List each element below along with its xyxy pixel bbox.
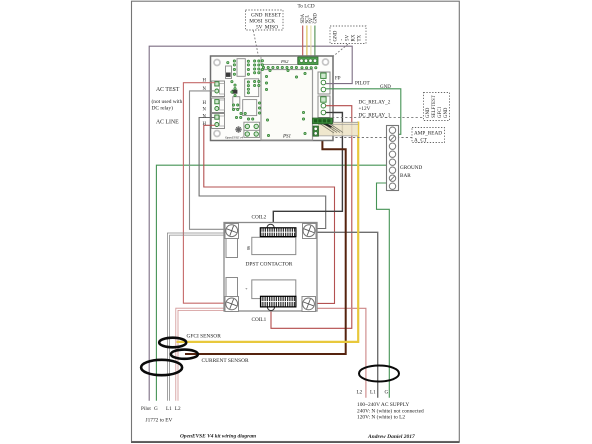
svg-text:To LCD: To LCD [298,4,315,10]
svg-text:+12V: +12V [359,106,371,112]
svg-text:L1: L1 [166,406,172,412]
svg-text:A_CT: A_CT [414,138,428,144]
svg-text:MISO: MISO [265,25,278,31]
wire current sensor maroon [185,137,346,354]
PCB pads scatter [227,60,317,137]
PCB mounting hole bottom-left [214,131,220,137]
contactor screw box BL [225,297,239,312]
dashed link ICSP to PCB [253,31,258,57]
IC tall rect JP2 [237,59,245,77]
GFCI header dashed box [424,93,450,121]
wire LCD SDA red [302,26,304,59]
svg-text:AC TEST: AC TEST [156,87,180,93]
svg-text:J1772 to EV: J1772 to EV [146,418,173,424]
wire L2 to J1772 double pink a [176,308,227,401]
svg-text:FP: FP [335,77,341,82]
svg-text:AMP_READ: AMP_READ [414,131,442,137]
svg-text:SELFTEST: SELFTEST [432,95,437,118]
svg-text:GND: GND [444,107,449,118]
svg-text:5V: 5V [256,25,263,31]
svg-text:RX: RX [352,34,357,41]
contactor screw box TL [225,224,239,239]
coil 1 hatched [261,296,296,307]
svg-text:L2: L2 [175,406,181,412]
page border frame [132,1,460,441]
svg-text:BAR: BAR [400,173,411,179]
svg-text:PS1: PS1 [282,135,291,140]
svg-text:GFCI: GFCI [438,107,443,118]
svg-text:86: 86 [246,246,251,250]
wire ground green J1772 to ground bar [156,165,386,401]
wire supply L1 gray [316,232,378,397]
wire AC LINE N dark gray [199,118,326,229]
page bottom edge thick [131,441,460,443]
gear icon [235,126,241,132]
svg-text:H: H [203,122,207,127]
svg-text:G: G [154,406,158,412]
connector AC TEST block [212,81,225,97]
svg-text:L2: L2 [357,390,363,396]
connector LCD header [298,57,318,65]
ICSP dashed box [246,10,284,31]
svg-text:H: H [203,79,207,84]
serial dashed box [330,26,366,44]
wire L1 to J1772 double gray a [167,233,226,401]
wire stub AC TEST H at pad [210,82,215,84]
wire supply ground green [377,183,390,398]
wire stub DC_RELAY_1 at pin [326,112,334,114]
IC dark chip B [232,90,238,94]
dashed net AMP_READ [331,137,412,139]
wire supply L2 pink [315,308,366,398]
J1772 cable ellipse [141,360,182,375]
wire DC_RELAY_1 black to coil2 [273,113,342,224]
dashed link serial to PCB [334,44,348,56]
coil 2 hatched [260,228,296,237]
wire AC TEST N gray [190,91,227,229]
wire L2 to J1772 double pink b [178,310,227,400]
svg-text:DPST CONTACTOR: DPST CONTACTOR [246,262,293,268]
svg-text:H: H [203,101,207,106]
svg-text:GFCI SENSOR: GFCI SENSOR [187,334,222,340]
svg-text:CURRENT SENSOR: CURRENT SENSOR [202,358,249,364]
svg-text:AC LINE: AC LINE [156,120,179,126]
wire GFCI yellow [177,122,359,342]
jumper block JP1 [244,122,260,137]
AC supply cable ellipse [359,366,399,382]
wire pilot purple loop [149,46,352,401]
svg-text:5V: 5V [346,35,351,42]
svg-text:N: N [203,108,207,113]
contactor left tab upper [226,239,238,258]
PCB mounting hole top-right [323,59,329,65]
IC rect E [243,100,257,116]
contactor K1 body [224,223,317,312]
wire LCD 5V pale [310,26,312,59]
IC rect D [233,97,240,109]
ground bar [387,126,399,191]
terminal block AC [313,118,333,124]
terminal block CT [313,126,319,136]
svg-text:OpenEVSE v4: OpenEVSE v4 [225,136,244,140]
svg-text:COIL1: COIL1 [252,317,267,323]
svg-text:Andrew Daniel 2017: Andrew Daniel 2017 [367,434,415,440]
connector DC relay block [318,96,330,118]
wire LCD GND green [314,26,316,59]
connector unused block [212,98,225,113]
IC dark chip A [226,73,231,77]
IC small rect A [226,66,232,79]
wire AC TEST H red [183,83,228,304]
svg-text:GND: GND [426,107,431,118]
wire GND green PCB to ground bar [326,89,401,135]
PCB mounting hole top-left [214,60,220,66]
svg-text:GROUND: GROUND [400,165,422,171]
current sensor ellipse [171,350,198,359]
contactor middle rect lower [252,280,296,299]
wire LCD SCL yellow [306,26,308,59]
relay PS1 [261,70,313,141]
wire black diagonal bundle [318,121,332,127]
svg-text:DC_RELAY_2: DC_RELAY_2 [359,100,391,106]
svg-text:(not used with: (not used with [152,98,183,105]
contactor middle rect upper [252,237,296,254]
svg-text:120V: N (white) to L2: 120V: N (white) to L2 [357,414,405,421]
svg-text:GND: GND [334,30,339,41]
wire stub AC TEST N at pad [210,90,215,92]
svg-text:GND: GND [314,13,319,24]
svg-text:PILOT: PILOT [355,81,371,87]
IC rect C [245,79,259,97]
svg-text:240V: N (white) not connected: 240V: N (white) not connected [357,407,424,414]
connector FP block [318,72,330,94]
wire stub AC LINE H at pad [210,124,215,126]
contactor screw box BR [302,297,316,312]
svg-text:Pilot: Pilot [141,406,151,412]
svg-text:N: N [203,87,207,92]
coil 2 bump [267,224,274,228]
svg-text:100~240V AC SUPPLY: 100~240V AC SUPPLY [357,402,409,408]
connector PS2 strip [261,57,298,65]
svg-text:L1: L1 [370,390,376,396]
wire L1 to J1772 double gray b [170,235,226,401]
wire stub AC LINE N at pad [210,117,215,119]
contactor screw box TR [303,224,317,239]
svg-text:DC relay): DC relay) [152,105,174,112]
wire +12V red to coil1 [271,106,352,329]
GFCI sensor ellipse [159,338,186,348]
wire stub GND at pin [326,88,334,90]
wire AC LINE H crimson [204,125,335,303]
dashed net GFCI header [332,117,424,119]
svg-text:G: G [385,390,389,396]
svg-text:GND: GND [380,85,391,90]
PCB board U1 [211,56,334,141]
svg-text:PS2: PS2 [280,59,289,64]
wire stub pilot at pin [326,83,334,85]
svg-text:OpenEVSE V4 kit wiring diagram: OpenEVSE V4 kit wiring diagram [180,434,256,440]
svg-text:N: N [203,115,207,120]
svg-text:COIL2: COIL2 [252,215,267,221]
svg-text:TX: TX [358,34,363,41]
tan ribbon bundle [318,122,358,136]
coil 1 bump [267,307,274,311]
contactor left tab lower [226,278,238,297]
AMP_READ dashed box [412,128,445,144]
wire stub +12V at pin [326,105,334,107]
svg-text:DC_RELAY_1: DC_RELAY_1 [359,113,391,119]
connector AC LINE block [212,114,225,129]
